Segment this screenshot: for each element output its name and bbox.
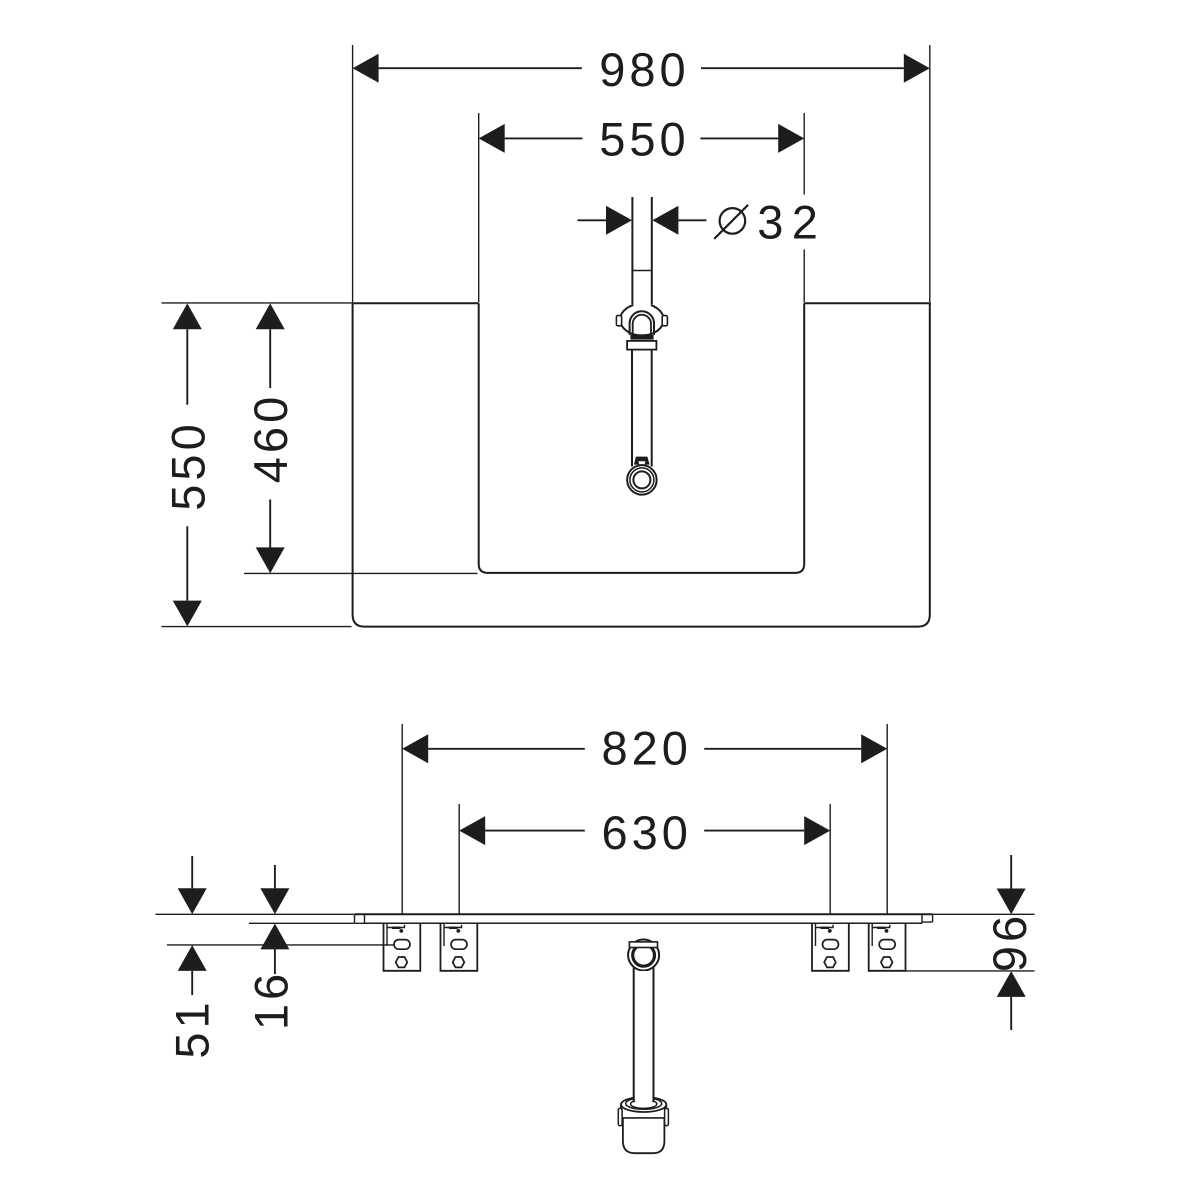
outlet ring middle (630, 468, 654, 492)
bracket B1 box (384, 923, 421, 971)
valve right tab (662, 316, 667, 326)
siphon pipe left wall (633, 967, 635, 1103)
svg-text:820: 820 (601, 722, 691, 775)
svg-text:630: 630 (601, 806, 691, 859)
bracket B1 inner vertical (386, 923, 388, 946)
dim diameter 32 left tail (578, 219, 607, 221)
wall bracket B2 (441, 923, 478, 971)
tailpipe end collar notch (638, 461, 645, 464)
dim 460 line (269, 329, 271, 547)
dim 820 arrow left (402, 734, 428, 763)
dim 550 line (505, 137, 779, 139)
bracket B1 pin dot (399, 929, 403, 933)
siphon right clip tab (665, 1108, 669, 1125)
diameter symbol slash (714, 205, 748, 239)
outlet ring bore (633, 471, 650, 488)
dim 550 vertical bottom extension (162, 626, 352, 628)
dim 550 vertical top extension (162, 302, 352, 304)
dim 630 arrow right (804, 816, 830, 845)
dim diameter 32 arrow left (606, 206, 632, 235)
tailpipe left wall (631, 350, 633, 467)
standpipe right wall (651, 197, 653, 304)
siphon outlet ring outer (628, 940, 659, 971)
dim 980 line (379, 67, 904, 69)
bracket B1 hex screw (396, 957, 408, 967)
dim 550 arrow left (479, 124, 505, 153)
basin top edge left wing (352, 302, 479, 304)
siphon cup hole ellipse (631, 1100, 657, 1109)
bracket B1 slot hole (394, 940, 410, 950)
dim 980 extension line right (929, 45, 931, 302)
siphon cup collar outer ellipse (621, 1097, 666, 1112)
svg-text:980: 980 (599, 43, 689, 96)
siphon outlet ring bore thick (633, 944, 655, 966)
standpipe joint line (632, 270, 651, 272)
dim 550 vertical arrow top (173, 303, 202, 329)
siphon collar left wall (620, 1105, 622, 1118)
diameter symbol circle (720, 208, 746, 234)
basin outer outline (353, 303, 930, 626)
dim 96 arrow up (997, 971, 1026, 997)
siphon left clip tab (618, 1108, 622, 1125)
tailpipe right wall (651, 350, 653, 467)
basin inner U cutout (479, 303, 805, 573)
dim 550 vertical line (186, 329, 188, 600)
wall bracket B4 (869, 923, 906, 971)
siphon pipe right wall (653, 967, 655, 1103)
valve left tab (616, 316, 621, 326)
plate top extension to left (156, 913, 355, 915)
valve lower dark band (630, 335, 653, 340)
dim 820 extension right (886, 724, 888, 914)
dim 550 arrow right (778, 124, 804, 153)
siphon cup seam (622, 1117, 666, 1119)
valve inner arch outer (630, 311, 654, 335)
dim 820 line (428, 748, 861, 750)
svg-text:16: 16 (245, 970, 298, 1030)
dim 51 arrow up (178, 945, 207, 971)
dim 460 bottom extension (244, 572, 478, 574)
bracket B1 slot mark (392, 927, 401, 929)
svg-text:460: 460 (244, 393, 297, 483)
basin top edge right wing (804, 302, 931, 304)
dim 51 bottom tail (191, 971, 193, 995)
dim 630 arrow left (459, 816, 485, 845)
bracket B1 hook (387, 925, 405, 928)
svg-text:550: 550 (599, 113, 689, 166)
dim 980 extension line left (352, 45, 354, 302)
plate bottom extension to left (249, 922, 354, 924)
siphon pipe interior white (635, 971, 653, 1101)
siphon mounting flange (629, 942, 657, 948)
dim 550 extension line right (803, 113, 805, 302)
svg-text:51: 51 (165, 998, 218, 1058)
dim 460 arrow top (256, 303, 285, 329)
dim 16 top tail (274, 865, 276, 888)
dim 550 vertical arrow bottom (173, 601, 202, 627)
svg-text:550: 550 (161, 420, 214, 510)
plate bottom edge (365, 922, 923, 924)
svg-text:96: 96 (983, 912, 1036, 972)
dim 820 arrow right (861, 734, 887, 763)
dim 16 arrow up (260, 924, 289, 950)
svg-text:2: 2 (792, 196, 818, 249)
plate right end cap (922, 914, 933, 923)
drain valve body ellipse (620, 304, 664, 336)
plate left end cap (355, 914, 365, 923)
svg-text:3: 3 (757, 196, 783, 249)
dim 630 line (485, 830, 804, 832)
dim 51 arrow down (178, 888, 207, 914)
siphon cup collar mid ellipse (626, 1098, 662, 1110)
plate top edge (355, 913, 933, 915)
dim 630 extension left (458, 804, 460, 914)
dim 460 arrow bottom (256, 547, 285, 573)
dim 96 bottom extension (904, 970, 1034, 972)
dim 16 bottom tail (274, 949, 276, 974)
standpipe white interior (633, 196, 650, 318)
dim 550 extension line left (478, 113, 480, 302)
slot axis extension line (167, 944, 395, 946)
wall bracket B1 (384, 923, 421, 971)
dim 980 arrow left (353, 54, 379, 83)
wall bracket B3 (812, 923, 849, 971)
dim diameter 32 right tail (678, 219, 706, 221)
dim diameter 32 arrow right (652, 206, 678, 235)
tailpipe end collar dark (634, 457, 650, 465)
valve inner arch inner (633, 315, 651, 335)
dim 96 top tail (1010, 855, 1012, 889)
dim 16 arrow down (260, 888, 289, 914)
valve flange nut (627, 341, 656, 350)
dim 630 extension right (829, 804, 831, 914)
dim 820 extension left (401, 724, 403, 914)
outlet ring outer (627, 465, 657, 495)
dim 96 arrow down (997, 889, 1026, 915)
siphon cup body (623, 1118, 665, 1153)
dim 51 top tail (191, 856, 193, 888)
siphon collar right wall (665, 1105, 667, 1118)
dim 96 top extension (927, 913, 1035, 915)
dim 980 arrow right (904, 54, 930, 83)
standpipe left wall (631, 197, 633, 304)
dim 96 bottom tail (1010, 997, 1012, 1030)
